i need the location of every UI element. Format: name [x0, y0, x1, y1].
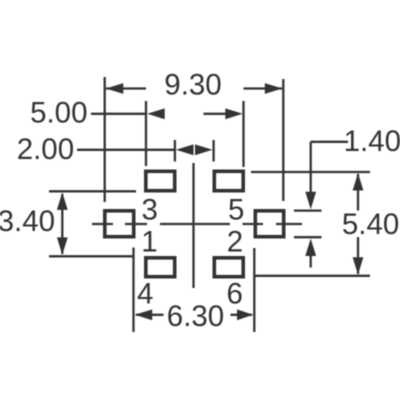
5.40 dim line top segment	[357, 174, 359, 211]
5.40 bottom extension line	[255, 275, 371, 277]
svg-text:3.40: 3.40	[0, 205, 55, 238]
1.40 leader horizontal	[311, 141, 348, 143]
6.30 right arrowhead	[237, 309, 253, 320]
5.40 up arrowhead	[353, 173, 364, 191]
svg-text:2: 2	[227, 226, 243, 259]
pad 3 (top-left rectangle)	[146, 171, 175, 190]
svg-text:1: 1	[141, 226, 157, 259]
6.30 dim line left tail	[136, 314, 164, 316]
5.40 dim line bottom segment	[357, 237, 359, 274]
1.40 leader vertical	[310, 142, 312, 193]
right square pad	[255, 211, 283, 237]
horizontal centerline segment 5	[276, 223, 302, 225]
horizontal centerline segment 3 (through center)	[160, 223, 230, 225]
svg-text:5.00: 5.00	[30, 96, 87, 129]
3.40 dim line	[61, 194, 63, 254]
extension line C (for 5.00 left)	[145, 101, 147, 166]
extension line D (for 5.00 right)	[242, 101, 244, 167]
1.40 up arrowhead	[305, 239, 316, 257]
svg-text:5: 5	[228, 193, 244, 226]
vertical centerline	[192, 163, 194, 288]
horizontal centerline segment 2	[125, 223, 147, 225]
extension tick F (for 2.00 right)	[212, 140, 214, 162]
6.30 left arrowhead	[135, 309, 153, 320]
3.40 up arrowhead	[57, 192, 68, 210]
dim line 9.30 left segment	[106, 87, 146, 89]
3.40 down arrowhead	[57, 237, 68, 255]
1.40 tick G (pad top edge)	[294, 209, 322, 211]
dim line 9.30 right segment	[244, 87, 283, 89]
5.00 right arrowhead	[225, 108, 243, 119]
pad 6 (bottom-right rectangle)	[214, 258, 243, 277]
6.30 left extension line	[132, 248, 134, 333]
svg-text:3: 3	[142, 193, 158, 226]
svg-text:4: 4	[137, 277, 153, 310]
9.30 right arrowhead	[265, 83, 283, 94]
dim line 5.00 leader	[91, 113, 147, 115]
6.30 right extension line	[253, 248, 255, 332]
horizontal centerline segment 4	[243, 223, 264, 225]
svg-text:2.00: 2.00	[17, 133, 74, 166]
2.00 left arrowhead	[176, 144, 194, 155]
svg-text:1.40: 1.40	[344, 125, 400, 158]
3.40 bottom extension line	[49, 255, 133, 257]
extension line A (left, for 9.30)	[104, 77, 106, 202]
svg-text:5.40: 5.40	[342, 208, 399, 241]
1.40 down arrowhead	[305, 192, 316, 210]
pad 5 (top-right rectangle)	[214, 171, 243, 190]
svg-text:9.30: 9.30	[164, 69, 221, 102]
horizontal centerline segment 1	[92, 223, 113, 225]
6.30 dim line right tail	[231, 314, 253, 316]
dim line 2.00 leader	[77, 149, 175, 151]
dim line 5.00 right tail	[204, 113, 227, 115]
1.40 up arrow tail	[310, 255, 312, 268]
svg-text:6: 6	[227, 277, 243, 310]
left square pad	[105, 211, 134, 237]
5.40 top extension line	[251, 171, 370, 173]
pad 4 (bottom-left rectangle)	[146, 258, 175, 277]
2.00 right arrowhead	[195, 144, 213, 155]
1.40 tick H (pad bottom edge)	[294, 236, 322, 238]
3.40 top extension line	[49, 190, 136, 192]
extension tick E (for 2.00 left)	[174, 140, 176, 162]
svg-text:6.30: 6.30	[167, 300, 224, 333]
5.40 down arrowhead	[353, 257, 364, 275]
5.00 left arrowhead	[147, 108, 165, 119]
extension line B (right, for 9.30)	[282, 79, 284, 201]
9.30 left arrowhead	[106, 83, 124, 94]
